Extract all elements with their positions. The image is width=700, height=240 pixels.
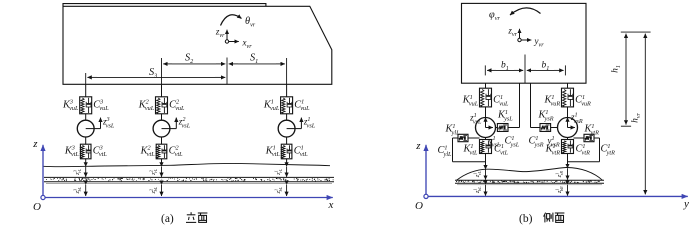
svg-text:O: O — [415, 200, 423, 212]
svg-text:z: z — [415, 140, 421, 152]
svg-text:(a): (a) — [161, 213, 174, 225]
svg-text:y: y — [683, 198, 689, 210]
svg-text:O: O — [33, 201, 41, 213]
svg-text:z: z — [32, 138, 38, 150]
svg-text:(b): (b) — [519, 213, 533, 225]
svg-text:x: x — [328, 199, 334, 211]
